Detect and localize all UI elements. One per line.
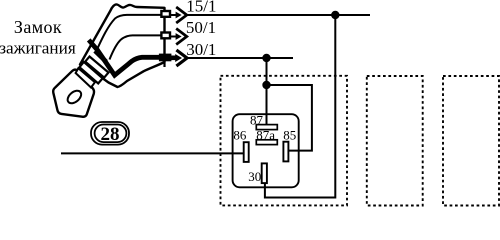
svg-text:50/1: 50/1: [186, 18, 216, 37]
svg-text:30/1: 30/1: [186, 40, 216, 59]
connector arrow 15/1: [170, 7, 187, 23]
svg-text:28: 28: [101, 124, 120, 145]
terminal 50/1 pin: [161, 33, 170, 39]
connector arrow 50/1: [170, 29, 187, 45]
ignition lock S1: internal wire to terminal 15/1: [97, 15, 162, 51]
junction dot on 30/1 wire: [262, 54, 270, 62]
ignition lock S1: collar band upper: [85, 57, 108, 78]
wire from 15/1 down and left to relay pin 30: [265, 15, 335, 198]
branch wire to relay pin 85: [267, 85, 312, 151]
wire to relay pin 86: [61, 152, 244, 154]
relay pin 87 bar: [256, 125, 277, 130]
svg-text:86: 86: [233, 127, 247, 142]
terminal 15/1 pin: [161, 11, 170, 17]
terminal 30/1 pin: [159, 54, 172, 62]
component 28 badge inner oval: [95, 125, 127, 143]
junction dot on pin87 wire: [262, 81, 270, 89]
relay pin 30: [262, 163, 267, 183]
wire 30/1 horizontal: [187, 57, 293, 59]
ignition lock S1: contact group (E shape) and thick wire to terminal 30/1: [90, 42, 162, 75]
svg-text:15/1: 15/1: [186, 0, 216, 16]
relay body: [233, 114, 299, 187]
ignition lock S1: collar band lower: [80, 62, 103, 84]
wire 15/1 horizontal: [187, 14, 370, 16]
svg-text:Замок: Замок: [14, 17, 62, 37]
ignition lock S1: key hole: [65, 88, 83, 106]
ignition lock S1: contact group middle tooth: [97, 52, 105, 60]
svg-text:87: 87: [250, 113, 264, 128]
svg-text:30: 30: [248, 169, 261, 184]
ignition lock S1: cylinder body outline: [80, 4, 165, 87]
relay pin 86: [244, 142, 249, 162]
ignition lock S1: terminal bus stub: [163, 61, 165, 67]
component 28 badge outer oval: [91, 122, 129, 145]
junction dot on 15/1 wire: [331, 11, 339, 19]
ignition lock S1: internal wire to terminal 50/1: [110, 35, 162, 59]
svg-text:зажигания: зажигания: [0, 39, 76, 58]
ignition lock title text: [0, 17, 76, 58]
relay pin 85: [283, 142, 288, 162]
svg-text:85: 85: [283, 127, 296, 142]
relay pin 87a bar: [256, 140, 277, 145]
dashed box 3: [443, 76, 499, 206]
connector arrow 30/1: [171, 50, 187, 66]
dashed box 2: [367, 76, 423, 206]
svg-text:87а: 87а: [256, 127, 275, 142]
ignition lock S1: key bow: [53, 70, 94, 117]
wire from 30/1 down to relay pin 87: [266, 58, 268, 125]
ignition lock S1: key shaft: [76, 68, 95, 87]
dashed box relay K1: [221, 76, 348, 206]
